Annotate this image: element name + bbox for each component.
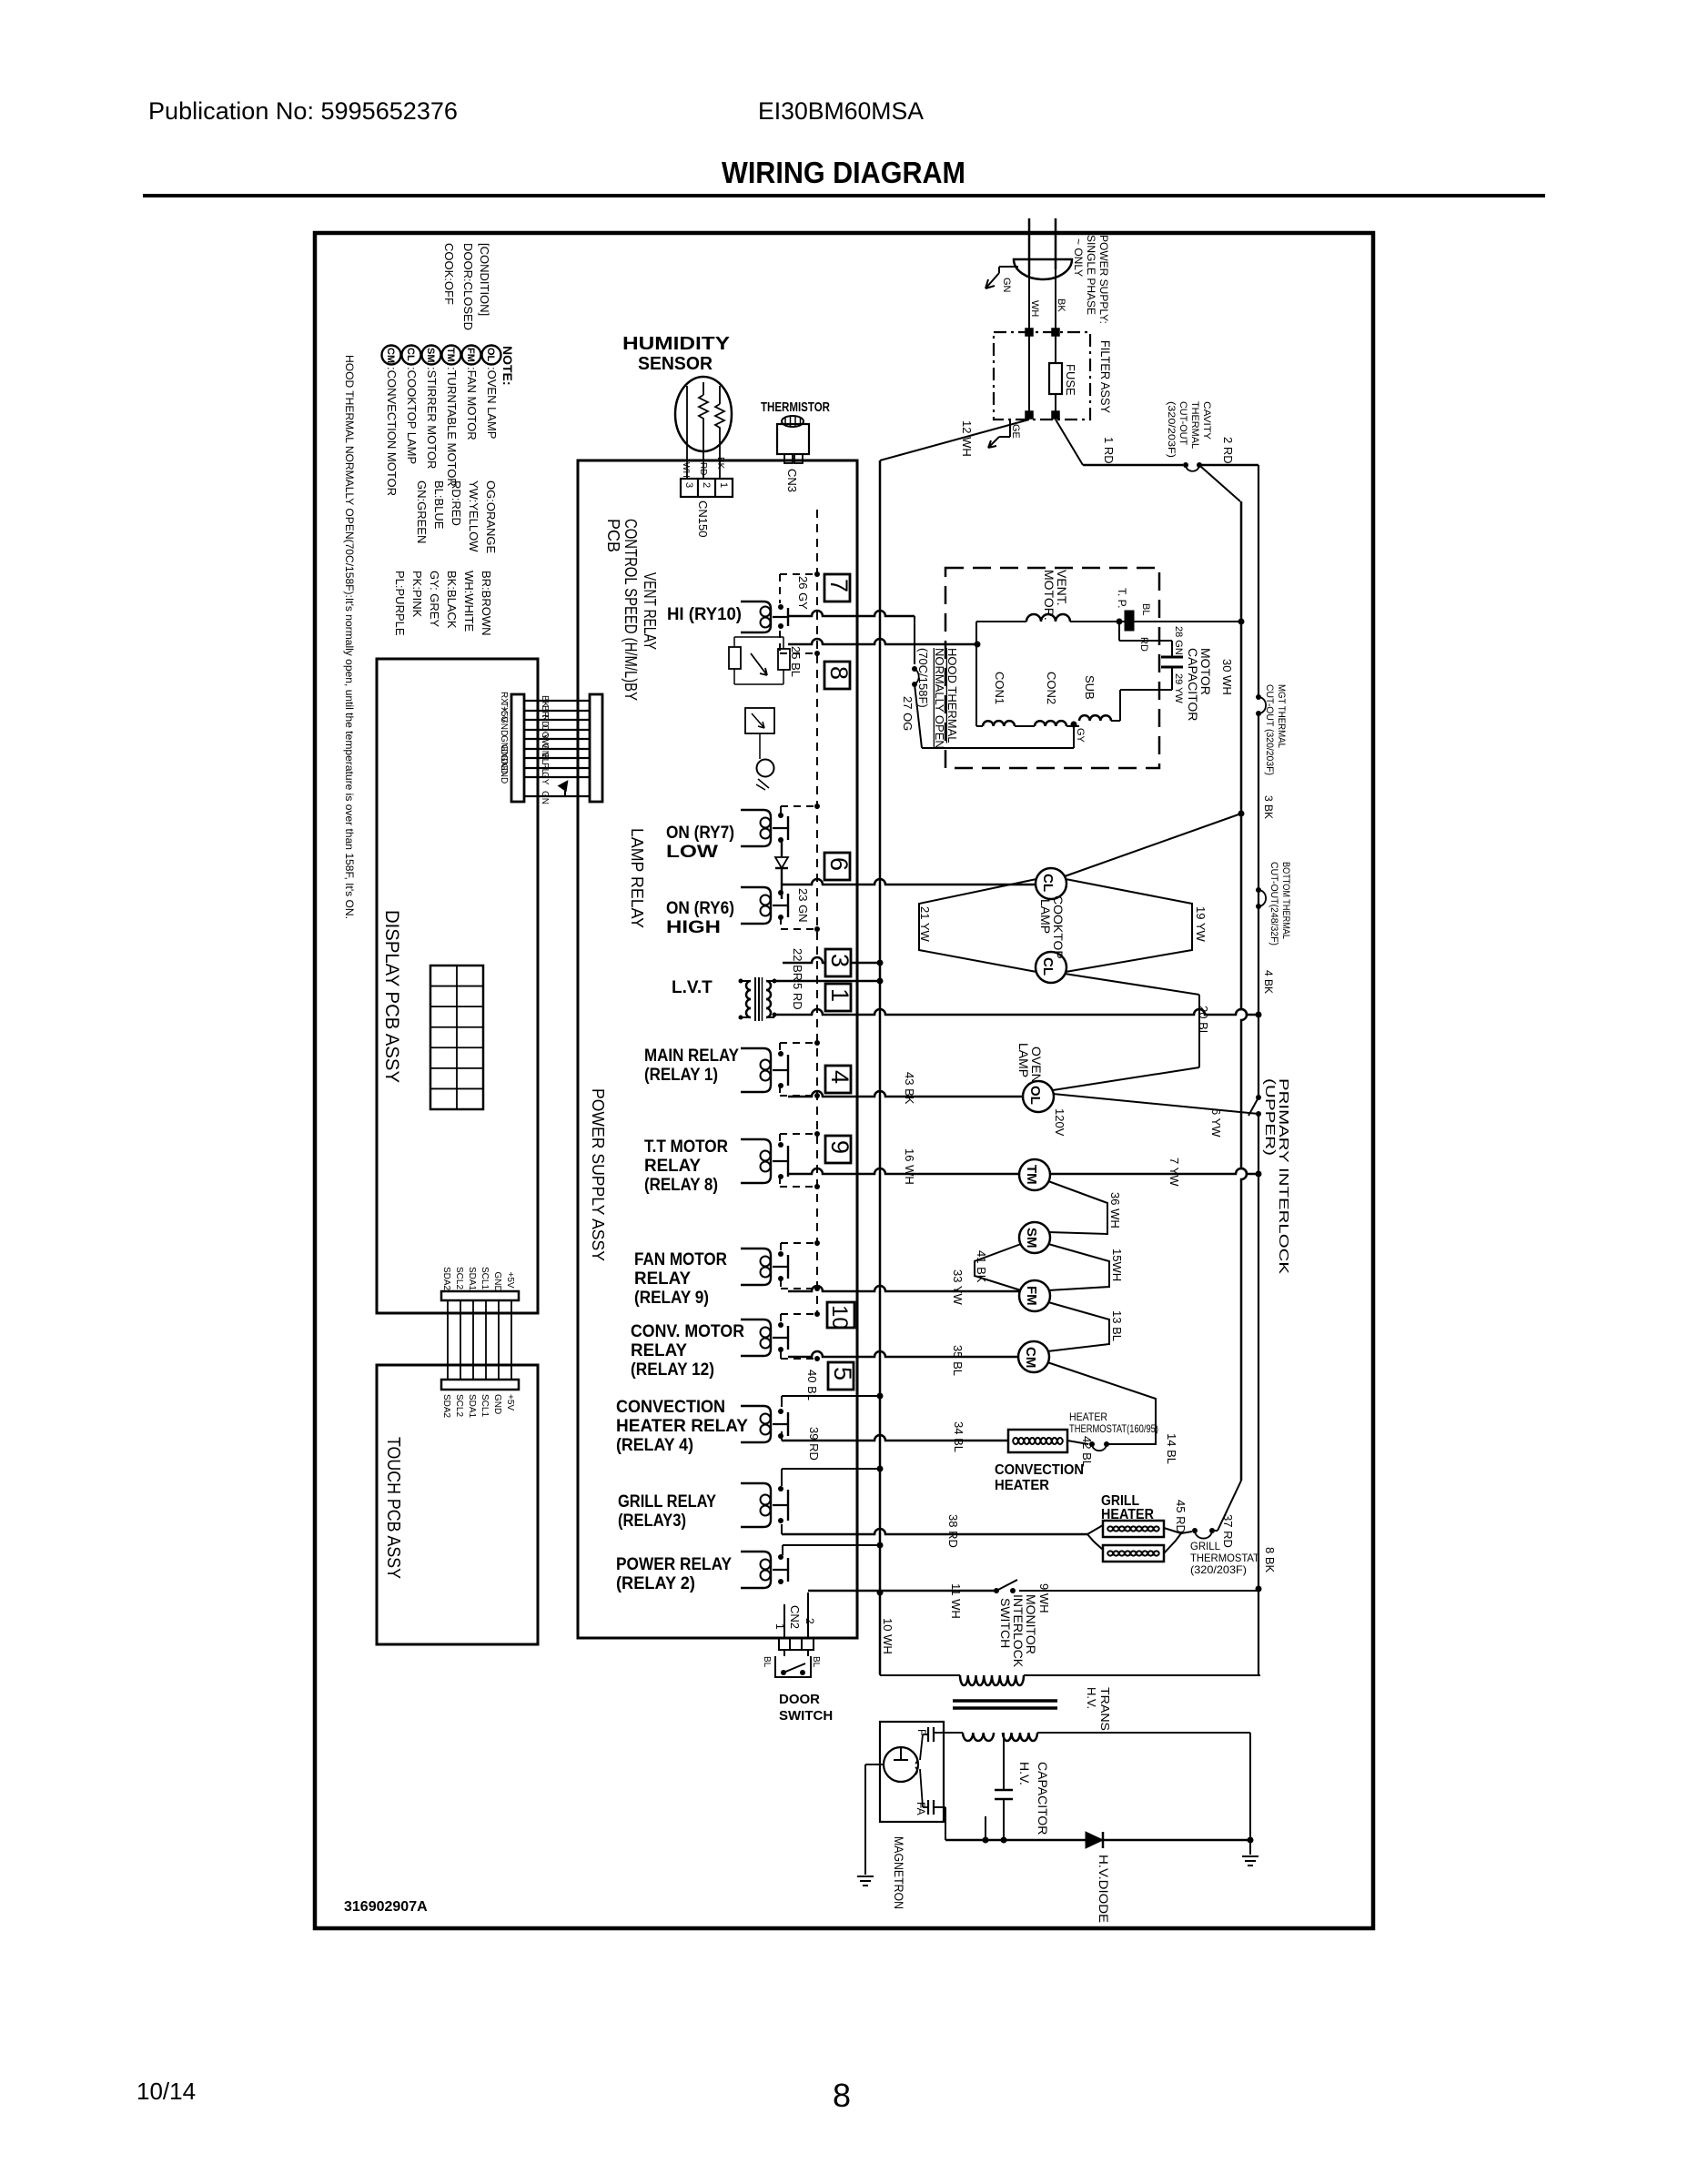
svg-text:40 BL: 40 BL: [805, 1370, 819, 1400]
svg-text:HI (RY10): HI (RY10): [667, 605, 742, 624]
svg-text:MAIN RELAY: MAIN RELAY: [644, 1046, 739, 1066]
svg-text:THERMAL: THERMAL: [1189, 401, 1200, 449]
svg-text:RD: RD: [1138, 637, 1149, 652]
wire row LVT bottom 20 BL to line B: [774, 1009, 1258, 1015]
svg-text:13 BL: 13 BL: [1110, 1310, 1124, 1341]
sub winding SUB: [1079, 715, 1111, 721]
magnetron tube: [884, 1747, 918, 1782]
svg-text:CAPACITOR: CAPACITOR: [1186, 648, 1200, 721]
svg-text:HEATER: HEATER: [1069, 1410, 1107, 1423]
svg-text:PCB: PCB: [604, 519, 622, 552]
svg-text:BK: BK: [1056, 298, 1066, 312]
humidity sensor lead wires: [686, 386, 688, 479]
cooktop lamp lens wires left 21 YW: [919, 879, 1036, 972]
vent relay HI (RY10): [741, 602, 771, 632]
motor capacitor: [1118, 622, 1120, 641]
svg-text:SM: SM: [425, 348, 436, 363]
svg-text:DISPLAY PCB ASSY: DISPLAY PCB ASSY: [381, 910, 402, 1083]
H.V. secondary to diode wire: [1037, 1732, 1250, 1734]
legend symbol TM:TURNTABLE MOTOR: [442, 346, 461, 365]
legend symbol CM:CONVECTION MOTOR: [382, 346, 401, 365]
svg-text:4: 4: [826, 1070, 854, 1084]
filter assy box: [994, 332, 1090, 420]
svg-text:COOKTOP: COOKTOP: [1051, 895, 1066, 959]
H.V. transformer core: [953, 1699, 1057, 1703]
svg-text:+5V: +5V: [505, 1394, 515, 1410]
ribbon connector display-to-control: left header bar: [511, 694, 524, 802]
svg-text:39 RD: 39 RD: [807, 1427, 821, 1461]
svg-text:BL: BL: [811, 1656, 821, 1668]
power plug symbol: [1014, 259, 1072, 279]
svg-text:CUT-OUT (320/203F): CUT-OUT (320/203F): [1264, 684, 1275, 775]
svg-text:PK:PINK: PK:PINK: [410, 571, 424, 618]
convection heater relay (RELAY 4): [741, 1406, 771, 1442]
line A vertical 30 WH: [1241, 501, 1247, 1481]
svg-text:SWITCH: SWITCH: [998, 1598, 1013, 1648]
door switch wires: [783, 1650, 785, 1656]
svg-text:5: 5: [829, 1367, 856, 1380]
svg-text:16 WH: 16 WH: [903, 1148, 916, 1185]
svg-text:NOTE:: NOTE:: [500, 346, 515, 386]
svg-text:43 BK: 43 BK: [903, 1072, 916, 1105]
svg-text:SM: SM: [1024, 1228, 1039, 1249]
svg-text:PRIMARY INTERLOCK: PRIMARY INTERLOCK: [1276, 1078, 1291, 1274]
svg-text:TRANS: TRANS: [1098, 1687, 1112, 1731]
svg-text:CONVECTION: CONVECTION: [995, 1462, 1084, 1478]
svg-text:CL: CL: [1040, 957, 1056, 976]
svg-text:41 BK: 41 BK: [975, 1250, 988, 1283]
callout box 1: [825, 984, 851, 1011]
svg-text:CUT-OUT: CUT-OUT: [1178, 401, 1188, 445]
svg-text:3 BK: 3 BK: [1262, 795, 1275, 819]
svg-text:19 YW: 19 YW: [1194, 906, 1208, 943]
magnetron ground: [865, 1764, 884, 1765]
junction dot line B at TM row: [1256, 1171, 1262, 1178]
svg-text:RELAY: RELAY: [644, 1157, 701, 1176]
magnetron F terminal capacitor: [923, 1734, 928, 1735]
svg-text:WH:WHITE: WH:WHITE: [462, 571, 476, 632]
svg-text:GY: GY: [1075, 728, 1086, 743]
main winding CON2: [1035, 721, 1066, 726]
door switch body: [775, 1656, 811, 1677]
humidity sensor element 1: [699, 395, 708, 422]
callout box 8: [824, 662, 850, 689]
hood thermal switch: [914, 616, 915, 664]
bottom thermal cut-out switch: [1256, 887, 1261, 893]
svg-text:GND: GND: [492, 1394, 502, 1414]
svg-text:OL: OL: [1027, 1086, 1043, 1105]
svg-text:1: 1: [718, 482, 729, 488]
legend symbol SM:STIRRER MOTOR: [422, 346, 441, 365]
svg-text:28 GN: 28 GN: [1173, 626, 1184, 655]
lamp relay ON (RY6) HIGH: [741, 887, 771, 924]
svg-text:10: 10: [827, 1305, 852, 1330]
svg-text:33 YW: 33 YW: [951, 1269, 965, 1306]
svg-text:21 YW: 21 YW: [918, 906, 932, 943]
lamp relay ON (RY7) LOW: [741, 810, 771, 846]
svg-text:POWER SUPPLY ASSY: POWER SUPPLY ASSY: [589, 1088, 607, 1261]
svg-text::FAN MOTOR: :FAN MOTOR: [465, 367, 479, 440]
svg-text:CONV. MOTOR: CONV. MOTOR: [631, 1322, 744, 1341]
ground at H.V. diode output: [1248, 1837, 1254, 1844]
svg-text:36 WH: 36 WH: [1108, 1192, 1122, 1228]
svg-text:POWER RELAY: POWER RELAY: [616, 1555, 732, 1574]
wire row 5 RD: LVT top: [774, 980, 880, 983]
svg-text:BK:BLACK: BK:BLACK: [445, 571, 459, 629]
stirrer motor SM: [1019, 1222, 1050, 1253]
svg-text:FAN MOTOR: FAN MOTOR: [634, 1250, 727, 1269]
svg-text:10/14: 10/14: [136, 2078, 196, 2105]
svg-text:FUSE: FUSE: [1064, 364, 1077, 396]
callout box 4: [825, 1066, 851, 1093]
svg-text:2 RD: 2 RD: [1221, 437, 1235, 464]
svg-text:1 RD: 1 RD: [1102, 437, 1116, 464]
grill relay (RELAY3): [741, 1483, 771, 1527]
svg-text:(RELAY 2): (RELAY 2): [616, 1574, 695, 1593]
svg-text:12 WH: 12 WH: [960, 420, 974, 457]
convection motor CM: [1018, 1341, 1049, 1372]
svg-text:T. P.: T. P.: [1116, 588, 1128, 608]
cooktop lamp CL lower: [1036, 952, 1066, 983]
callout box 3: [825, 949, 851, 976]
svg-text:CON1: CON1: [993, 672, 1006, 704]
svg-text:5 RD: 5 RD: [791, 983, 804, 1010]
H.V. transformer filament winding: [963, 1733, 994, 1741]
svg-text:26 GY: 26 GY: [796, 576, 810, 610]
svg-text:6: 6: [825, 857, 853, 871]
thermal protector T.P.: [1125, 611, 1134, 631]
humidity sensor element 2: [715, 404, 724, 431]
wire row 33 YW: fan motor relay to FM: [788, 1286, 1020, 1291]
junction dot line B at LVT row: [1256, 1012, 1262, 1018]
svg-text:1: 1: [826, 988, 854, 1002]
svg-text:38 RD: 38 RD: [946, 1514, 960, 1548]
convection heater element: [1008, 1430, 1067, 1452]
svg-text:30 WH: 30 WH: [1220, 659, 1234, 695]
connector CN2: [779, 1638, 814, 1650]
svg-text:CONTROL SPEED (H/M/L)BY: CONTROL SPEED (H/M/L)BY: [622, 519, 640, 701]
wire row 35 BL: conv motor relay to CM: [788, 1351, 1019, 1357]
wire CL upper to line A 3BK: [1065, 814, 1241, 876]
ground GE at filter: [1009, 420, 1011, 437]
svg-text:YW:YELLOW: YW:YELLOW: [467, 480, 480, 552]
svg-text:(320/203F): (320/203F): [1190, 1563, 1247, 1576]
svg-text:120V: 120V: [1053, 1108, 1066, 1137]
svg-text:WIRING DIAGRAM: WIRING DIAGRAM: [722, 156, 965, 189]
svg-text:WH: WH: [1029, 300, 1040, 317]
svg-text:CM: CM: [385, 348, 396, 363]
svg-text:MGT THERMAL: MGT THERMAL: [1276, 684, 1287, 748]
svg-text:SUB: SUB: [1083, 675, 1097, 700]
svg-text:HUMIDITY: HUMIDITY: [622, 334, 731, 354]
svg-text:GRILL: GRILL: [1190, 1540, 1220, 1552]
svg-text::OVEN LAMP: :OVEN LAMP: [485, 367, 499, 439]
svg-text:10 WH: 10 WH: [881, 1618, 895, 1654]
ribbon chassis arrow: [564, 784, 566, 796]
svg-text:GE: GE: [1010, 424, 1021, 439]
wire row 23 GN: lamp relays to cooktop lamp: [782, 879, 1036, 885]
wire from hood thermal to motor GY: [922, 747, 1074, 749]
wire row 26 GY: HI relay to hood thermal: [788, 611, 915, 616]
ribbon wires: [524, 700, 590, 702]
svg-text:SCL1: SCL1: [480, 1267, 490, 1289]
svg-text:OL: OL: [485, 348, 496, 362]
wire 1 RD: [1056, 420, 1083, 465]
svg-text:(RELAY 8): (RELAY 8): [644, 1176, 718, 1195]
svg-text:FM: FM: [465, 348, 476, 362]
oven lamp OL: [1023, 1081, 1054, 1112]
filter internal wires: [1028, 332, 1030, 414]
dashed box around fan relay switch: [781, 1242, 817, 1244]
callout box 6: [824, 853, 850, 880]
svg-text:BK: BK: [715, 457, 725, 470]
svg-text:PL:PURPLE: PL:PURPLE: [393, 571, 407, 636]
svg-text:8: 8: [833, 2077, 851, 2114]
svg-text:HIGH: HIGH: [666, 918, 721, 937]
svg-text:F: F: [915, 1729, 928, 1735]
svg-text:34 BL: 34 BL: [952, 1421, 965, 1452]
H.V. diode: [1086, 1832, 1103, 1848]
power relay (RELAY 2): [741, 1552, 771, 1588]
svg-text::CONVECTION MOTOR: :CONVECTION MOTOR: [385, 367, 399, 496]
svg-text:MOTOR.: MOTOR.: [1042, 570, 1056, 621]
svg-text:H.V.DIODE: H.V.DIODE: [1097, 1855, 1111, 1923]
svg-text:RD:RED: RD:RED: [450, 480, 463, 526]
svg-text:COOK:OFF: COOK:OFF: [442, 243, 456, 305]
svg-text:CON2: CON2: [1045, 672, 1058, 704]
7-segment display grid: [430, 966, 483, 1109]
svg-text:LAMP: LAMP: [1038, 899, 1053, 934]
svg-text:SWITCH: SWITCH: [779, 1708, 833, 1724]
svg-text:H.V.: H.V.: [1085, 1687, 1098, 1709]
ground GN at plug: [999, 266, 1018, 268]
wire diagonal to line A: [1201, 467, 1240, 501]
vent motor winding coil: [1026, 614, 1070, 622]
wire row 38 RD: grill relay to grill heater: [781, 1524, 783, 1534]
svg-text:(RELAY 1): (RELAY 1): [644, 1066, 718, 1085]
display PCB assy box: [377, 659, 538, 1313]
svg-text:+5V: +5V: [505, 1272, 515, 1289]
header rule: [143, 194, 1545, 197]
svg-text:8: 8: [825, 666, 853, 680]
conv. motor relay (RELAY 12): [741, 1319, 771, 1356]
svg-text:INTERLOCK: INTERLOCK: [1011, 1594, 1026, 1668]
svg-text:TM: TM: [445, 348, 456, 362]
bottom H.V. wire: [945, 1839, 1250, 1842]
svg-text:14 BL: 14 BL: [1165, 1433, 1178, 1464]
wire 41 BK SM to FM left: [975, 1244, 1021, 1290]
svg-text:HOOD THERMAL: HOOD THERMAL: [945, 648, 959, 743]
callout box 9: [825, 1136, 851, 1163]
grill heater elements: [1103, 1521, 1164, 1537]
svg-text:FM: FM: [1024, 1286, 1039, 1306]
svg-text:LAMP: LAMP: [1016, 1043, 1031, 1077]
svg-text:GND: GND: [492, 1272, 502, 1292]
svg-text:9 WH: 9 WH: [1037, 1583, 1051, 1613]
svg-text:RELAY: RELAY: [631, 1341, 687, 1360]
control/power-supply PCB box: [578, 460, 857, 1638]
svg-text:~ ONLY: ~ ONLY: [1072, 238, 1085, 277]
wire 12 WH filter to bus: [880, 420, 1029, 460]
svg-text:VENT RELAY: VENT RELAY: [641, 572, 659, 650]
dashed box around conv motor relay switch: [781, 1313, 817, 1315]
svg-text:2: 2: [804, 1618, 816, 1624]
svg-text:GN: GN: [1001, 278, 1012, 293]
bus line 12WH vertical (x=967): [879, 460, 882, 1674]
svg-text:29 YW: 29 YW: [1173, 673, 1184, 703]
svg-text:(UPPER): (UPPER): [1262, 1078, 1278, 1156]
svg-text:SINGLE PHASE: SINGLE PHASE: [1085, 235, 1097, 315]
H.V. capacitor: [1003, 1733, 1005, 1790]
svg-text:23 GN: 23 GN: [796, 888, 810, 923]
svg-text:GN: GN: [540, 791, 550, 804]
svg-text:CN2: CN2: [788, 1605, 802, 1629]
svg-text::TURNTABLE MOTOR: :TURNTABLE MOTOR: [445, 367, 459, 487]
svg-text:CONVECTION: CONVECTION: [616, 1398, 725, 1417]
svg-text:SCL2: SCL2: [454, 1267, 464, 1289]
svg-text:(320/203F): (320/203F): [1166, 401, 1177, 458]
wire row 34 BL: convection heater relay to heater: [781, 1431, 783, 1441]
vent motor wires: [976, 621, 1026, 622]
svg-text:316902907A: 316902907A: [344, 1899, 428, 1915]
cooktop lamp lens wires right 19 YW: [1066, 879, 1192, 972]
svg-text:CAVITY: CAVITY: [1201, 401, 1212, 440]
svg-text:CL: CL: [405, 348, 416, 361]
wire 20 BL stub CL lower to oven lamp: [1065, 974, 1199, 995]
outer border of diagram: [315, 233, 1373, 1928]
magnetron internal wires: [920, 1734, 923, 1760]
callout box 5: [828, 1362, 854, 1390]
wire row 40 BL: [781, 1396, 783, 1407]
vent motor dashed box: [945, 568, 1159, 768]
svg-text:FILTER ASSY: FILTER ASSY: [1098, 340, 1113, 414]
svg-text:ON (RY6): ON (RY6): [666, 899, 734, 918]
wire BK from plug to filter: [1055, 269, 1056, 332]
dashed control bus line: [816, 510, 818, 1314]
wire 13 BL FM to CM: [1047, 1302, 1109, 1351]
svg-text:H.V.: H.V.: [1017, 1762, 1032, 1785]
svg-text:CM: CM: [1023, 1347, 1038, 1368]
grill thermostat: [1181, 1532, 1192, 1533]
legend symbol CL:COOKTOP LAMP: [402, 346, 421, 365]
svg-text:CL: CL: [1040, 874, 1056, 892]
svg-text:THERMOSTAT(160/95): THERMOSTAT(160/95): [1069, 1422, 1158, 1435]
svg-text:LOW: LOW: [666, 843, 718, 862]
svg-text:22 BR: 22 BR: [791, 948, 804, 981]
svg-text:11 WH: 11 WH: [949, 1583, 963, 1619]
fuse: [1049, 363, 1062, 394]
dashed box around lamp relays: [781, 805, 817, 807]
svg-text:DOOR: DOOR: [779, 1692, 820, 1707]
junction dots on bus: [877, 960, 884, 966]
driver transistor circuit for vent relay: [729, 647, 741, 669]
legend symbol OL:OVEN LAMP: [482, 346, 501, 365]
thermistor body: [777, 424, 809, 454]
svg-text:45 RD: 45 RD: [1174, 1500, 1188, 1533]
svg-text:27 OG: 27 OG: [901, 696, 915, 731]
ribbon connector right header bar: [590, 694, 602, 802]
svg-text:TM: TM: [1024, 1165, 1039, 1185]
svg-text:SDA2: SDA2: [441, 1267, 451, 1291]
svg-text:L.V.T: L.V.T: [672, 978, 713, 997]
primary interlock switch: [1256, 1095, 1261, 1100]
wire row 43 BK: main relay to oven lamp: [788, 1091, 1024, 1097]
wire power relay top to bus: [782, 1545, 783, 1555]
callout box 10: [827, 1302, 854, 1328]
dashed box around RY10 switch: [780, 573, 817, 575]
svg-text:OVEN: OVEN: [1029, 1046, 1044, 1083]
cooktop lamp CL upper: [1036, 868, 1066, 899]
svg-text:BL:BLUE: BL:BLUE: [432, 480, 446, 530]
dashed box around TT relay switch: [780, 1133, 817, 1135]
svg-text:CN150: CN150: [696, 500, 710, 537]
svg-text:THERMISTOR: THERMISTOR: [761, 399, 830, 415]
svg-text:(RELAY 12): (RELAY 12): [631, 1360, 714, 1380]
svg-text:37 RD: 37 RD: [1221, 1514, 1235, 1548]
svg-text:WH: WH: [681, 462, 691, 478]
svg-text:3: 3: [683, 482, 694, 488]
wire 14 BL CM to heater thermostat: [1047, 1362, 1156, 1444]
svg-text:Publication No: 5995652376: Publication No: 5995652376: [148, 97, 458, 125]
wire 37 RD thermostat to line A: [1212, 1530, 1218, 1532]
svg-text:15WH: 15WH: [1110, 1249, 1124, 1281]
svg-text:RELAY: RELAY: [634, 1269, 691, 1289]
wire row 7 YW: TM to line B: [1049, 1168, 1258, 1174]
svg-text:7 YW: 7 YW: [1167, 1158, 1181, 1187]
svg-text:2: 2: [701, 482, 712, 488]
svg-text:SENSOR: SENSOR: [638, 354, 713, 374]
svg-text:T.T MOTOR: T.T MOTOR: [644, 1137, 728, 1157]
svg-text:BL: BL: [762, 1656, 772, 1668]
svg-text:9: 9: [826, 1140, 854, 1154]
wire 15WH SM to FM right: [1048, 1244, 1109, 1290]
svg-text:GN:GREEN: GN:GREEN: [415, 480, 429, 543]
wire row 39 RD: [781, 1469, 783, 1486]
svg-text:GY: GY: [540, 772, 550, 785]
svg-text:CUT-OUT(248/32F): CUT-OUT(248/32F): [1269, 862, 1279, 945]
H.V. transformer secondary winding: [1003, 1733, 1037, 1741]
wire row 16 WH: TT motor relay to TM: [788, 1168, 1020, 1174]
svg-text:8 BK: 8 BK: [1263, 1547, 1277, 1573]
junction dot line B at monitor row: [1256, 1586, 1262, 1592]
fan motor FM: [1019, 1280, 1050, 1311]
svg-text::COOKTOP LAMP: :COOKTOP LAMP: [405, 367, 419, 464]
connector CN150: [681, 479, 733, 497]
svg-text:7: 7: [825, 579, 853, 592]
svg-text:CAPACITOR: CAPACITOR: [1036, 1762, 1050, 1835]
svg-text:SDA1: SDA1: [467, 1267, 477, 1291]
svg-text:CN3: CN3: [785, 469, 799, 492]
wire 2 RD to line B: [1199, 464, 1258, 467]
diode between lamp relays: [781, 840, 783, 857]
main relay (RELAY 1): [741, 1048, 771, 1092]
svg-text:BOTTOM THERMAL: BOTTOM THERMAL: [1280, 862, 1291, 939]
svg-text:SDA2: SDA2: [441, 1394, 451, 1419]
svg-text:VENT.: VENT.: [1055, 570, 1069, 606]
svg-text:25 BL: 25 BL: [789, 646, 803, 677]
wire from bus to HV transformer primary: [879, 1674, 881, 1675]
svg-text:(RELAY 9): (RELAY 9): [634, 1289, 709, 1308]
svg-text:DOOR:CLOSED: DOOR:CLOSED: [461, 243, 475, 330]
svg-text:GND: GND: [499, 716, 509, 736]
svg-text:SDA1: SDA1: [467, 1394, 477, 1419]
magnetron box: [880, 1722, 944, 1822]
magnetron to filament winding wires: [934, 1732, 963, 1734]
svg-text:35 BL: 35 BL: [951, 1345, 965, 1376]
svg-text:SCL1: SCL1: [480, 1394, 490, 1417]
monitor interlock switch row 10WH/11WH/9WH: [808, 1590, 995, 1592]
svg-text:SCL2: SCL2: [454, 1394, 464, 1417]
